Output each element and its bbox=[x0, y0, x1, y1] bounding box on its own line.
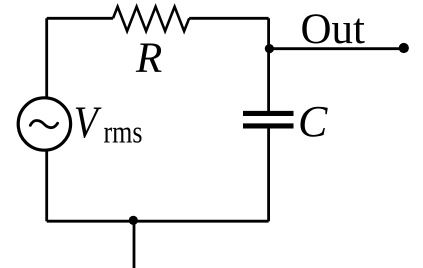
svg-text:rms: rms bbox=[104, 114, 143, 150]
svg-text:Out: Out bbox=[301, 6, 366, 53]
svg-text:V: V bbox=[74, 97, 102, 148]
svg-text:C: C bbox=[298, 97, 328, 146]
svg-text:R: R bbox=[135, 35, 162, 82]
